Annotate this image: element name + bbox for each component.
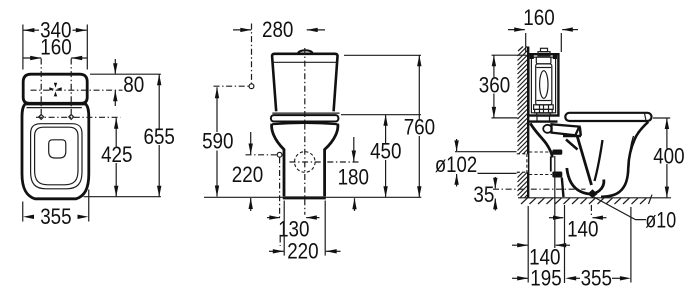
svg-text:160: 160: [40, 35, 71, 60]
svg-text:400: 400: [653, 143, 684, 168]
svg-text:80: 80: [123, 72, 144, 97]
svg-text:450: 450: [370, 139, 401, 164]
svg-text:590: 590: [202, 129, 233, 154]
svg-text:130: 130: [278, 216, 309, 241]
svg-text:220: 220: [287, 239, 318, 264]
svg-text:425: 425: [101, 142, 132, 167]
svg-text:360: 360: [479, 73, 510, 98]
svg-text:35: 35: [473, 182, 494, 207]
svg-text:ø102: ø102: [435, 152, 477, 177]
svg-text:ø10: ø10: [645, 208, 676, 233]
svg-text:355: 355: [581, 266, 612, 291]
svg-text:760: 760: [404, 115, 435, 140]
svg-text:355: 355: [40, 204, 71, 229]
svg-text:220: 220: [232, 162, 263, 187]
svg-text:195: 195: [530, 266, 561, 291]
svg-text:160: 160: [523, 5, 554, 30]
svg-text:655: 655: [144, 124, 175, 149]
svg-text:280: 280: [262, 17, 293, 42]
svg-text:140: 140: [567, 216, 598, 241]
svg-text:180: 180: [338, 165, 369, 190]
